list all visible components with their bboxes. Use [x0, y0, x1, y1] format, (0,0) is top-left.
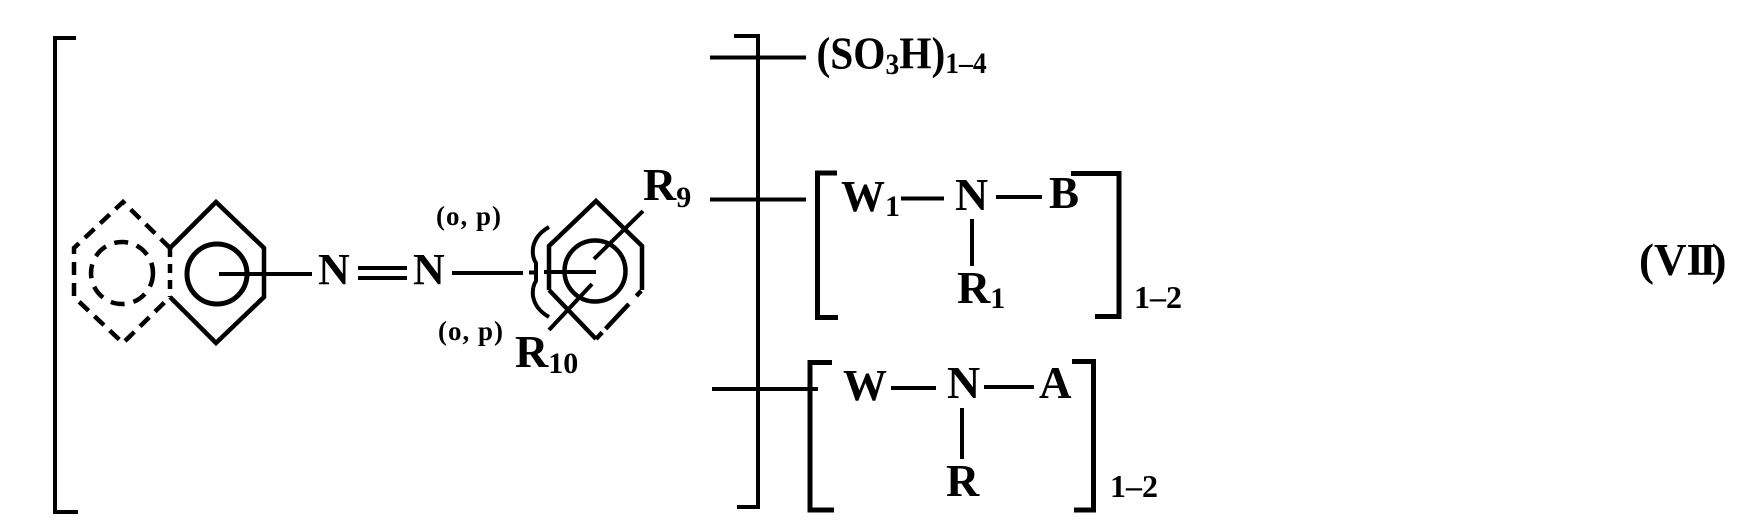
svg-text:R10: R10	[515, 326, 578, 380]
azo double bond N=N	[358, 268, 407, 278]
bond N to R (bottom)	[960, 408, 964, 459]
naphthalene ring A (dashed hexagon)	[74, 202, 170, 343]
svg-text:R1: R1	[957, 262, 1005, 315]
svg-text:B: B	[1049, 168, 1079, 218]
svg-text:N: N	[413, 245, 445, 294]
bond N to A	[984, 385, 1034, 389]
bond azo N to benzene ring	[452, 272, 596, 273]
svg-text:(VII): (VII)	[1639, 235, 1727, 285]
svg-text:W1: W1	[841, 172, 900, 223]
svg-text:R: R	[946, 455, 980, 506]
bond ring B to azo N	[219, 272, 312, 276]
bond N to B	[996, 195, 1042, 199]
svg-text:(o, p): (o, p)	[438, 316, 504, 346]
svg-text:N: N	[318, 245, 350, 294]
svg-text:W: W	[843, 361, 887, 410]
svg-text:R9: R9	[643, 159, 691, 214]
naphthalene ring A inner circle (dashed)	[91, 242, 153, 304]
svg-text:(o, p): (o, p)	[436, 201, 502, 231]
svg-text:1–2: 1–2	[1134, 279, 1182, 315]
benzene bottom-right edge (broken)	[596, 290, 642, 339]
bond to bottom group	[712, 387, 818, 391]
middle group right bracket	[1071, 174, 1119, 317]
svg-text:N: N	[947, 357, 980, 408]
svg-text:(SO3H)1–4: (SO3H)1–4	[817, 29, 987, 81]
naphthalene ring B (solid hexagon)	[170, 202, 264, 343]
svg-text:1–2: 1–2	[1110, 468, 1158, 504]
bottom group left bracket	[810, 363, 834, 511]
bond to R9	[594, 211, 643, 259]
bottom group right bracket	[1072, 362, 1094, 511]
benzene bottom-left edge	[549, 290, 596, 339]
squiggle (variable attachment)	[533, 227, 549, 317]
big right bracket line	[734, 36, 758, 507]
bond SO3H to bracket	[710, 56, 806, 60]
svg-text:A: A	[1039, 358, 1072, 408]
bond N to R1	[970, 219, 974, 266]
benzene hexagon (solid edges)	[549, 201, 642, 290]
big left bracket	[55, 38, 78, 512]
svg-text:N: N	[955, 169, 988, 220]
benzene inner circle	[565, 241, 626, 302]
bond R9 to middle group	[710, 198, 806, 202]
middle group left bracket	[818, 173, 839, 318]
bond W1 to N	[901, 197, 944, 201]
bond W to N (bottom)	[891, 386, 936, 390]
naphthalene shared edge (dashed)	[168, 248, 173, 297]
bond to R10	[549, 284, 592, 330]
naphthalene ring B inner circle	[187, 244, 247, 304]
